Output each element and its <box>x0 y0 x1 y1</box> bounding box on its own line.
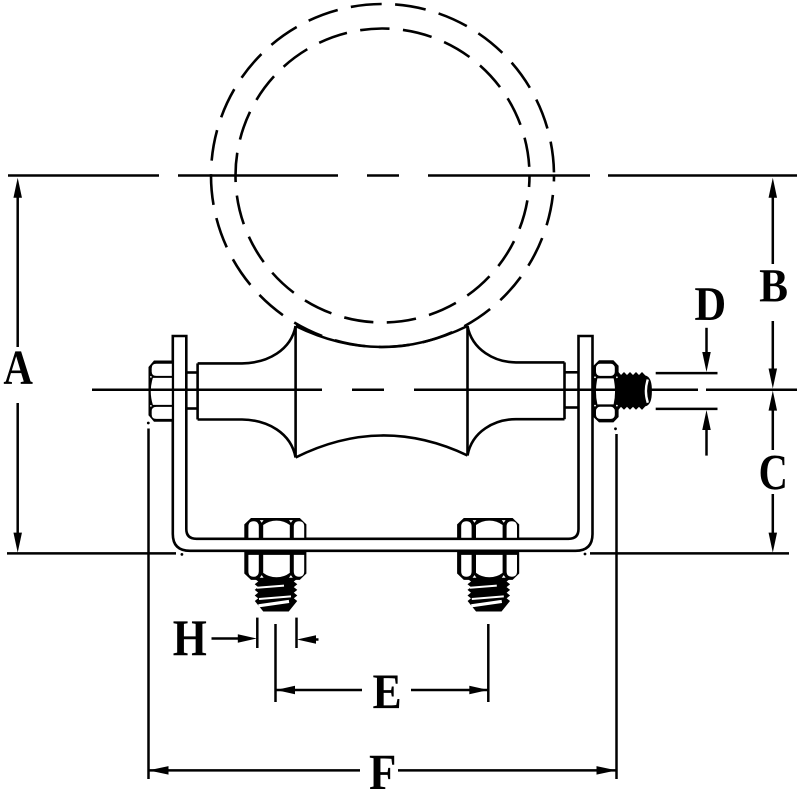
bottom bolt right: upper nut <box>457 518 519 540</box>
centerline across bolt head <box>149 389 173 392</box>
label C <box>761 455 785 489</box>
axle horizontal centerline <box>92 389 797 392</box>
dimension H <box>212 618 319 648</box>
dimension C <box>590 409 789 553</box>
bottom bolt right: threaded stud (black) <box>468 579 509 611</box>
bottom bolt right: lower nut <box>457 552 519 580</box>
dimension B <box>772 196 775 370</box>
dimension F <box>149 429 617 780</box>
label A <box>4 351 33 383</box>
label H <box>173 621 206 655</box>
bottom bolt left: upper nut <box>244 518 306 540</box>
U-channel bracket <box>173 336 593 551</box>
dimension D <box>656 328 718 456</box>
label B <box>760 270 787 301</box>
bottom bolt left: lower nut <box>244 552 306 580</box>
centerline across axle nut <box>593 389 618 392</box>
left boss / washer <box>186 363 197 419</box>
pipe horizontal centerline <box>8 174 797 177</box>
axle bolt head (left, hex side view) <box>149 361 173 422</box>
pipe outer circle (dashed) <box>211 4 554 347</box>
axle nut (right, hex side view) <box>593 360 618 422</box>
right boss / washer <box>565 372 579 407</box>
dimension E <box>276 624 489 702</box>
pipe inner circle (dashed) <box>236 29 530 323</box>
roller (concave wheel) <box>198 326 565 458</box>
label F <box>370 756 394 789</box>
dimension A <box>7 196 176 553</box>
label D <box>695 288 724 320</box>
label E <box>373 676 399 709</box>
threaded stud (right, black) <box>618 373 651 409</box>
bottom bolt left: threaded stud (black) <box>256 579 297 611</box>
